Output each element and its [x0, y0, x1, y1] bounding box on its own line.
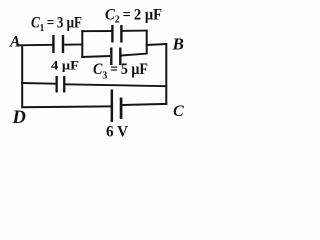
svg-text:D: D [12, 108, 26, 128]
capacitor 4uF [56, 76, 58, 93]
capacitor C1 [52, 35, 54, 53]
svg-text:6 V: 6 V [106, 124, 129, 141]
capacitor C3 [110, 48, 112, 66]
svg-text:C: C [173, 103, 184, 120]
svg-text:A: A [9, 34, 20, 51]
wire A to C1 [17, 44, 53, 47]
wire bottom D side [21, 105, 111, 108]
wire C2 branch left [81, 30, 111, 32]
wire left rail A to D [21, 45, 23, 109]
svg-text:B: B [172, 35, 184, 54]
node: right rail of parallel box [146, 30, 148, 55]
wire box to B corner [146, 44, 167, 45]
svg-text:C2 = 2 μF: C2 = 2 μF [105, 6, 162, 25]
wire 4uF branch left [21, 82, 56, 85]
wire 4uF branch right [65, 84, 167, 86]
battery 6V short plate [120, 98, 123, 120]
wire C2 branch right [122, 30, 147, 32]
node: left rail of parallel box [81, 30, 83, 58]
svg-text:4 μF: 4 μF [51, 58, 79, 73]
wire C1 to parallel box [64, 43, 83, 45]
wire C3 branch left [81, 56, 110, 57]
capacitor C2 [111, 25, 113, 43]
battery 6V long plate [111, 90, 114, 123]
wire bottom C side [123, 104, 168, 105]
wire right rail B to C [165, 43, 167, 105]
svg-text:C1 = 3 μF: C1 = 3 μF [31, 15, 82, 34]
wire C3 branch right [121, 54, 147, 56]
